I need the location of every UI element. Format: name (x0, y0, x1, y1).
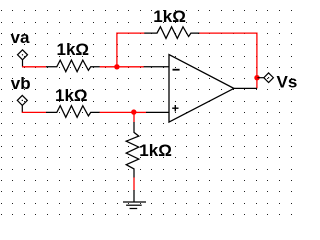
svg-text:Vs: Vs (277, 73, 298, 92)
svg-text:1kΩ: 1kΩ (139, 141, 172, 160)
node C junction (output) (254, 75, 259, 80)
svg-text:va: va (11, 28, 30, 47)
op-amp U1 non-inverting input pin (146, 111, 169, 113)
svg-text:vb: vb (11, 74, 31, 93)
wire R3 to node B (100, 111, 134, 113)
wire feedback riser node A to R2 (117, 33, 145, 67)
wire node B to op-amp non-inverting pin (134, 111, 146, 113)
wire va to R1 (22, 66, 46, 68)
connector vb (17, 95, 27, 112)
wire node A to op-amp inverting pin (117, 66, 144, 68)
svg-text:1kΩ: 1kΩ (153, 7, 186, 26)
wire vb to R3 (22, 111, 46, 113)
connector Vs (258, 73, 274, 83)
node A junction (114, 64, 119, 69)
ground (123, 190, 146, 209)
resistor R2 1kΩ (feedback) (144, 27, 199, 39)
op-amp U1 output pin (234, 87, 257, 89)
op-amp U1 (169, 55, 234, 123)
wire R1 to node A (100, 66, 117, 68)
svg-text:1kΩ: 1kΩ (55, 86, 88, 105)
resistor R3 1kΩ (vb series) (46, 106, 100, 118)
wire node B down to R4 (133, 112, 135, 122)
node B junction (131, 109, 136, 114)
resistor R1 1kΩ (va series) (46, 60, 100, 72)
connector va (18, 50, 28, 67)
resistor R4 1kΩ (to ground) (126, 122, 139, 178)
wire R2 to output node (199, 33, 257, 88)
op-amp U1 inverting input pin (144, 66, 169, 68)
wire R4 to ground (133, 177, 135, 190)
svg-text:1kΩ: 1kΩ (57, 40, 90, 59)
